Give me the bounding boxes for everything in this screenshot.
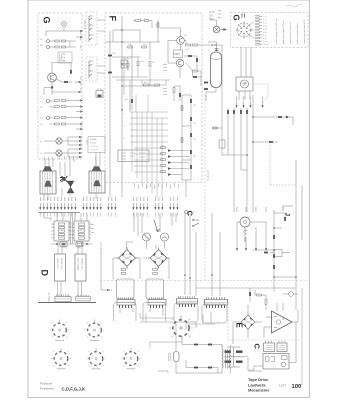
wire mid [122, 42, 160, 86]
terminal arrows [76, 116, 83, 118]
wires into mid-right from F [202, 45, 228, 155]
comb connector CB1 [55, 295, 71, 302]
resistor R3 [55, 46, 60, 48]
component blob [131, 99, 133, 103]
wire to terminals [237, 222, 266, 244]
wire fan L3 [44, 149, 75, 157]
bottom row components [51, 243, 92, 245]
svg-text:LIFT BAR: LIFT BAR [99, 242, 102, 253]
pin ladder column [255, 16, 260, 46]
contact circle S1a [47, 40, 50, 43]
G arrow value labels [80, 31, 83, 149]
switch dots [192, 219, 194, 227]
svg-text:LIFT 500: LIFT 500 [47, 292, 50, 302]
switch symbol [193, 220, 199, 226]
connector jack J1 dashed box [86, 12, 97, 45]
resistor R13 [61, 123, 66, 125]
resistor R20 [136, 20, 141, 22]
bottom right vertical [296, 288, 302, 385]
svg-text:C,D,F,G,J,K: C,D,F,G,J,K [62, 386, 86, 391]
wire [253, 213, 296, 277]
dial SW2 [85, 320, 105, 338]
shield outline SH3 [174, 303, 198, 322]
resistor column RC1 [161, 147, 166, 149]
vertical drops center [185, 213, 196, 296]
wire transistor links [160, 28, 181, 78]
legend rows [90, 138, 98, 152]
svg-text:2 rt: 2 rt [263, 18, 266, 21]
triangle inner marks [274, 317, 284, 328]
resistor R7 [61, 100, 66, 102]
svg-text:9 ws: 9 ws [263, 41, 267, 43]
svg-text:21V: 21V [209, 16, 214, 18]
arrow column wires [172, 151, 190, 175]
diode D11 [190, 117, 192, 121]
ladder tiny labels [263, 15, 269, 46]
bridge BR2 [148, 247, 170, 269]
svg-text:50 Hz: 50 Hz [59, 60, 66, 63]
comb connector CB2 [76, 295, 90, 301]
junction dots row [184, 274, 213, 279]
svg-text:Tape Drive: Tape Drive [248, 377, 269, 382]
terminal arrows L2 [75, 136, 82, 138]
DIP block U1 [52, 221, 72, 241]
sub-box inner marks [121, 153, 145, 159]
dial SW5 [121, 348, 141, 366]
terminal arrows [76, 99, 83, 101]
wire bundle from G down [45, 159, 74, 167]
bridge side wires [113, 258, 169, 279]
wires bridges top [127, 241, 165, 249]
tiny value labels F [114, 20, 190, 64]
pad cross left bar2 [225, 361, 232, 363]
diode D12 [190, 133, 192, 137]
dashed box around E area [228, 303, 300, 340]
sub-box in F bottom [118, 150, 149, 162]
svg-text:REMOTE: REMOTE [83, 20, 85, 30]
diode D10 [190, 99, 192, 103]
resistor R10 [55, 117, 60, 119]
rail x132 [131, 45, 133, 110]
transistor T2 [176, 59, 184, 67]
resistor R41 [233, 110, 235, 114]
lower can under CB4 [143, 303, 166, 322]
junction dots on rail [121, 29, 123, 111]
arrow right of lamp [220, 28, 227, 30]
svg-text:Laufwerk: Laufwerk [248, 382, 266, 387]
wire [60, 162, 70, 196]
resistor [161, 165, 166, 167]
comb feet CB3 [119, 305, 132, 308]
shield can SH1 [117, 279, 135, 299]
resistor [161, 153, 166, 155]
wires section C [243, 322, 297, 371]
wire [289, 117, 293, 125]
lamp L3 [56, 150, 62, 156]
svg-text:G: G [42, 17, 52, 24]
relay RE2 body [75, 254, 86, 281]
T2 cluster wires [174, 56, 201, 101]
transformer TR1 windings [222, 349, 231, 368]
h-line y57 [112, 56, 140, 58]
dial SW6 main wafer [169, 315, 193, 337]
resistor R46 [213, 127, 218, 129]
svg-text:Positions: Positions [40, 381, 53, 385]
main left rail [121, 16, 123, 197]
resistor R24 [149, 62, 151, 67]
svg-text:6 bl: 6 bl [263, 32, 267, 34]
solder blob pair 2 [108, 72, 112, 74]
component right [284, 217, 286, 221]
solid comp above triangle [249, 292, 251, 296]
tiny labels left column [40, 39, 44, 155]
resistor R51 [273, 254, 275, 258]
junction dots [246, 116, 254, 156]
IC box U5 wide [263, 354, 289, 370]
pad cross right bar1 [236, 351, 243, 353]
motor circle M3 [161, 233, 169, 241]
resistor R50 [273, 235, 275, 239]
dashed divider horizontal [100, 280, 308, 282]
amplifier triangle A1 [272, 311, 293, 333]
capstan motor circle [240, 217, 250, 227]
terminal arrows under box [235, 101, 237, 108]
solenoid SOL1 plunger [45, 181, 52, 187]
horizontal link y=290 [196, 287, 296, 289]
wire [46, 27, 76, 36]
tiny label col 2 [163, 88, 167, 95]
resistor R52 [273, 265, 275, 269]
svg-text:10,5V: 10,5V [209, 12, 215, 14]
dial SW1 [50, 320, 70, 338]
comb block CB5 [177, 296, 198, 304]
solder blob pair 1 [108, 55, 112, 57]
svg-text:Mécanisme: Mécanisme [248, 388, 270, 393]
terminal arrow mid1 [75, 81, 82, 83]
h-line y77 / y80 [112, 77, 170, 80]
U3 pins [266, 341, 272, 343]
wire fan L2 [44, 137, 75, 145]
capacitor C1 [126, 60, 130, 70]
wire from jacks to F [97, 20, 105, 73]
resistor R44 [278, 116, 282, 118]
tiny labels mid F [112, 53, 148, 101]
jack J1 contacts [89, 16, 93, 42]
resistor R31 [181, 138, 183, 143]
svg-text:1.077.: 1.077. [279, 384, 287, 388]
tiny labels mesh [124, 105, 196, 164]
tiny label col 1 [163, 64, 167, 71]
circular connector P1 [237, 23, 251, 37]
pad cross outline [225, 347, 243, 367]
connector jack J2 dashed box [86, 57, 97, 81]
wire links diode col [182, 95, 191, 197]
bridge BR3 [239, 313, 257, 331]
wire legend to solenoid [96, 152, 100, 166]
comb feet CB6 [206, 305, 225, 308]
resistor R26 [186, 44, 191, 46]
diode D14 [190, 165, 192, 169]
pad cross left bar1 [225, 351, 232, 353]
ladder pin ticks [260, 16, 262, 44]
small info block [209, 12, 215, 21]
small indicator circle [289, 292, 294, 297]
terminal arrows row [39, 203, 178, 210]
resistor R40 [227, 110, 229, 114]
control box [236, 77, 253, 91]
dashed link right [253, 83, 268, 85]
wire row 367 [186, 360, 218, 368]
capstan inner [243, 220, 246, 223]
comb feet CB5 [179, 304, 195, 307]
svg-text:MOT: MOT [175, 52, 181, 56]
wires cluster [255, 290, 266, 310]
resistor R12 [55, 123, 60, 125]
svg-text:100: 100 [292, 384, 302, 390]
resistor R5a solid [64, 81, 68, 83]
svg-text:C 19 cm: C 19 cm [90, 146, 98, 148]
resistor R62 [194, 367, 198, 369]
terminal arrow mid2 [75, 91, 82, 93]
wire [52, 63, 73, 96]
wires connector to ladder [249, 22, 254, 38]
U4 inner [279, 346, 285, 350]
coil below capstan [244, 227, 247, 242]
diode D2 solid [70, 70, 72, 74]
wire right of T [184, 41, 202, 46]
resistor R30 [181, 106, 183, 111]
resistor R21 [144, 20, 149, 22]
transistor Q1 [48, 73, 57, 82]
resistor R45 [269, 141, 273, 143]
comb block CB3 [117, 297, 135, 305]
dial SW4 [86, 348, 106, 366]
heavy line under [38, 302, 96, 304]
arrow column to diodes [168, 149, 172, 176]
IC box U4 [277, 343, 287, 352]
svg-text:1 br: 1 br [263, 15, 267, 18]
triangle inner circle [276, 320, 280, 324]
capacitor C2 box [121, 60, 127, 68]
terminal arrows L3 [75, 148, 82, 150]
contact circle S2 [47, 100, 50, 103]
pencil note (faint) [286, 4, 303, 7]
jack plug glyph [96, 89, 103, 98]
svg-text:LIFT SYS: LIFT SYS [206, 170, 209, 181]
solid connector blobs left of capsule [204, 82, 208, 84]
section F dashed box [105, 13, 202, 183]
svg-text:RELAY 12V: RELAY 12V [60, 258, 63, 270]
wires down from combs [120, 308, 218, 336]
SW6 connecting wires [140, 313, 215, 348]
wire [150, 20, 158, 86]
bus line [38, 212, 80, 214]
svg-text:RELAY 12V: RELAY 12V [81, 258, 84, 270]
resistor R22 [128, 46, 133, 48]
svg-text:pilot lamp supply 12V dc: pilot lamp supply 12V dc [282, 19, 285, 44]
value box [58, 52, 72, 63]
svg-text:Positionen: Positionen [40, 387, 54, 391]
capsule rotated label [169, 353, 172, 361]
junction dots [273, 227, 297, 278]
tiny labels right of DIPs [68, 222, 94, 233]
wire bundle labels [44, 156, 96, 160]
U5 circle [281, 362, 286, 367]
dial captions [55, 340, 136, 369]
wires from terminal row down [134, 213, 176, 236]
svg-text:8 gr: 8 gr [263, 37, 267, 40]
terminal arrows right top [76, 30, 83, 32]
resistor R25 [157, 23, 159, 28]
U5 inner cups [266, 357, 275, 362]
MOT box [174, 50, 183, 58]
svg-text:A NAB: A NAB [90, 138, 97, 141]
svg-text:brake solenoid return: brake solenoid return [296, 23, 299, 44]
resistor R8 [55, 106, 60, 108]
solenoid SOL2 cap [92, 167, 101, 172]
U5 inner rects right [282, 356, 288, 360]
right components column [273, 210, 275, 292]
dashed link down [262, 84, 268, 103]
connector pin spokes [236, 22, 253, 39]
section G2 dashed box [231, 13, 309, 48]
resistor R6 [55, 100, 60, 102]
wires to triangle [264, 303, 298, 338]
resistor R29b [155, 84, 160, 86]
resistor R28 [137, 61, 139, 66]
resistor R4 [61, 46, 66, 48]
solenoid SOL2 plunger [94, 181, 101, 187]
mesh verticals [130, 95, 162, 197]
lamp L2 [56, 138, 62, 144]
resistor R60 [194, 344, 198, 346]
svg-text:chassis ground shield 0V: chassis ground shield 0V [303, 19, 306, 44]
diode D1 solid [67, 181, 74, 193]
dashed section link [270, 142, 296, 185]
label 11 marks [242, 14, 245, 18]
pad cross right bar2 [236, 361, 243, 363]
resistor R42 [240, 110, 242, 114]
diode column rail [182, 95, 191, 180]
motor circle M2 [143, 233, 151, 241]
arrow on branch [107, 289, 110, 291]
cluster above E [257, 294, 262, 296]
svg-text:remote start / stop line: remote start / stop line [289, 22, 292, 44]
shield outline SH4 [202, 304, 227, 323]
left rail x110 [109, 31, 111, 197]
svg-text:D 38 cm: D 38 cm [90, 150, 98, 152]
tacho glyph [243, 82, 247, 86]
tiny labels above arrows [236, 97, 263, 101]
dial SW3 [51, 348, 71, 366]
junction dot [51, 86, 53, 88]
tiny rotated labels above terminals [237, 207, 267, 212]
small node circle [185, 211, 188, 214]
wire top h [105, 30, 160, 42]
connector pin dots [241, 26, 248, 34]
terminal stubs below bus [40, 213, 177, 217]
wire verticals low [124, 77, 130, 110]
contact circle S3 [47, 117, 50, 120]
long vertical buses [228, 95, 253, 213]
svg-text:MOT BRAKE: MOT BRAKE [77, 258, 80, 271]
solenoid SOL1 body [40, 171, 56, 194]
resistor [161, 171, 166, 173]
tiny labels above terminals [40, 197, 178, 202]
transformer core [225, 349, 227, 369]
jack J2 contacts [89, 61, 93, 78]
solenoid SOL1 hatch [43, 171, 53, 194]
wires below control box [239, 91, 250, 100]
capsule inner line [211, 58, 222, 60]
comb feet CB4 [150, 305, 163, 308]
wires [158, 336, 222, 373]
svg-text:POS: POS [85, 140, 87, 145]
motor M1 capsule [211, 52, 222, 88]
right rail of D [101, 252, 112, 290]
legend box [88, 137, 105, 153]
component box [219, 140, 225, 148]
resistor R29 [144, 84, 149, 86]
solenoid SOL2 body [89, 171, 105, 193]
wire row 344 [182, 336, 222, 348]
wire h at 155 [228, 155, 247, 170]
relay RE1 body [55, 254, 66, 281]
diode D20 [286, 116, 289, 119]
resistor R61 [208, 344, 212, 346]
wire [44, 160, 96, 200]
diode pair X [62, 176, 68, 182]
wire links [124, 57, 138, 77]
svg-text:G: G [232, 15, 241, 21]
wires bridge E [234, 305, 262, 338]
wires relay down [58, 281, 82, 296]
label J bracket [283, 206, 293, 211]
DIP block U2 [72, 221, 92, 241]
solenoid SOL2 hatch [92, 171, 102, 193]
wires bus to DIPs [44, 213, 87, 244]
U3 inner [266, 346, 273, 350]
dense mesh area wires [130, 112, 168, 172]
right long rail [296, 160, 302, 310]
wire lamp up [210, 20, 217, 26]
wires from G2 connector down [241, 47, 251, 77]
branch y117 [253, 116, 286, 118]
M2 slot [144, 235, 149, 240]
mesh bottom wire labels [134, 183, 179, 189]
resistor R27 [193, 44, 198, 46]
resistor R9 [61, 106, 66, 108]
resistor R63 [208, 367, 212, 369]
terminal arrows row2 [236, 244, 238, 251]
section G dashed box [38, 13, 82, 159]
wires capstan [237, 222, 246, 242]
tacho circle [241, 80, 249, 88]
svg-text:C: C [253, 344, 262, 350]
transformer wires [218, 322, 233, 373]
resistor R2 [61, 40, 66, 42]
svg-text:TAPE LIFT: TAPE LIFT [56, 258, 59, 269]
pilot lamp L4 [213, 26, 220, 33]
U4 pins [279, 341, 285, 343]
wires DIP to relay [58, 241, 82, 254]
vertical dashed section divider [204, 95, 206, 280]
lamp L1 [62, 22, 67, 27]
solenoid SOL1 cap [43, 167, 52, 172]
capsule top tab [214, 49, 219, 52]
block ticks [218, 11, 221, 18]
wire [142, 80, 166, 85]
